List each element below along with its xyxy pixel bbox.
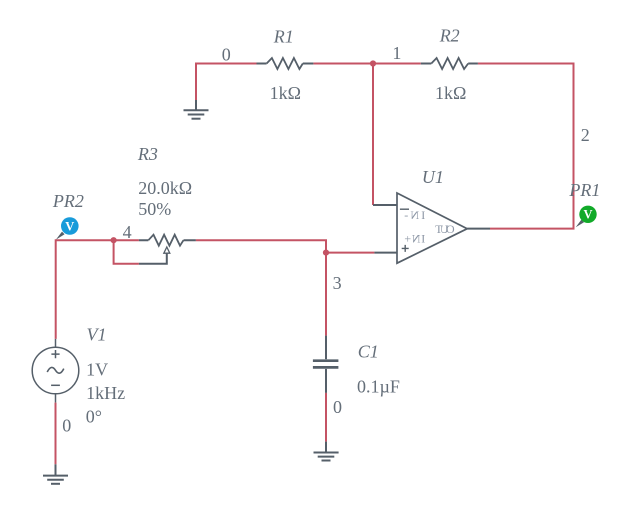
R3 value label 20.0kΩ [138, 178, 192, 198]
probe PR2 needle [56, 232, 65, 240]
U1 non-inverting input plus marker [402, 245, 409, 252]
svg-text:PR1: PR1 [568, 180, 600, 200]
node 0 label (below C1) [333, 397, 342, 417]
svg-text:0: 0 [222, 45, 231, 65]
svg-text:0: 0 [62, 415, 71, 435]
svg-text:R2: R2 [439, 26, 460, 46]
V1 phase label 0° [86, 406, 102, 426]
wire: PR2 corner to node 4, down to V1 [56, 240, 139, 339]
R2 reference label [439, 26, 460, 46]
V1 value label 1V [86, 360, 108, 380]
svg-text:1: 1 [392, 43, 401, 63]
svg-text:50%: 50% [138, 199, 171, 219]
node 1 label [392, 43, 401, 63]
node 4 label [123, 222, 132, 242]
U1 pin label OUT (mirrored) [434, 222, 454, 236]
wire: node 4 down and right to R3 wiper (red part) [114, 240, 139, 264]
wire: node 0 top-left corner to R1 left pin [196, 64, 257, 101]
svg-text:4: 4 [123, 222, 132, 242]
node 1 junction dot [370, 60, 376, 66]
V1 reference label [87, 325, 107, 345]
ground (below C1) [314, 442, 339, 461]
wire: R3 right pin to node 3 corner, to U1 non-inverting input and down to C1 [196, 240, 375, 335]
svg-text:R1: R1 [273, 26, 294, 46]
svg-text:C1: C1 [358, 341, 379, 361]
wire: R1 right pin to R2 left pin (node 1 rail) [313, 63, 420, 65]
svg-text:0°: 0° [86, 406, 102, 426]
R3 percentage label 50% [138, 199, 171, 219]
R3 wiper pin (gray part) [139, 253, 167, 264]
C1 value label 0.1µF [357, 377, 400, 397]
probe PR1 needle [576, 220, 584, 228]
svg-text:U1: U1 [422, 167, 444, 187]
source V1 circle with sine [32, 339, 79, 403]
R1 reference label [273, 26, 294, 46]
PR1 label [568, 180, 600, 200]
node 0 label (top-left) [222, 45, 231, 65]
wire: R2 right pin to right corner, down to op-amp output [478, 64, 574, 229]
svg-text:IN+: IN+ [404, 232, 425, 246]
wire: C1 bottom to ground [325, 393, 327, 442]
probe PR2 circle [61, 217, 79, 235]
svg-text:3: 3 [333, 273, 342, 293]
svg-text:1kΩ: 1kΩ [435, 83, 466, 103]
svg-text:IN-: IN- [404, 208, 425, 222]
C1 reference label [358, 341, 379, 361]
U1 output pin stub [467, 228, 490, 230]
svg-text:0.1µF: 0.1µF [357, 377, 400, 397]
svg-text:V: V [65, 219, 74, 233]
svg-text:V1: V1 [87, 325, 107, 345]
node 0 label (below V1) [62, 415, 71, 435]
svg-text:PR2: PR2 [52, 191, 84, 211]
svg-text:1V: 1V [86, 360, 108, 380]
wire: V1 bottom to ground [55, 403, 57, 465]
node 3 junction dot [323, 250, 329, 256]
svg-text:1kΩ: 1kΩ [270, 83, 301, 103]
node 2 label (right vertical wire) [581, 125, 590, 145]
resistor R2 [421, 58, 478, 69]
U1 inverting input pin stub [373, 204, 397, 206]
ground (top-left, node 0) [184, 100, 209, 119]
U1 pin label IN+ (mirrored) [404, 232, 425, 246]
U1 pin label IN- (mirrored) [404, 208, 425, 222]
svg-text:V: V [583, 208, 592, 222]
probe PR1 circle [579, 206, 596, 223]
potentiometer R3 [139, 235, 196, 254]
U1 inverting input minus marker [400, 208, 409, 210]
R2 value label 1kΩ [435, 83, 466, 103]
V1 frequency label 1kHz [86, 383, 125, 403]
svg-text:R3: R3 [137, 144, 158, 164]
ground (below V1) [43, 464, 68, 484]
svg-text:OUT: OUT [434, 222, 454, 236]
U1 non-inverting input pin stub [374, 252, 397, 254]
PR2 label [52, 191, 84, 211]
svg-text:2: 2 [581, 125, 590, 145]
capacitor C1 [313, 336, 339, 393]
op-amp U1 triangle [397, 193, 467, 263]
node 4 junction dot [111, 237, 117, 243]
node 3 label [333, 273, 342, 293]
svg-text:1kHz: 1kHz [86, 383, 125, 403]
resistor R1 [257, 58, 314, 69]
wire: node 1 down to U1 inverting input [372, 64, 374, 206]
U1 reference label [422, 167, 444, 187]
svg-text:0: 0 [333, 397, 342, 417]
R1 value label 1kΩ [270, 83, 301, 103]
R3 reference label [137, 144, 158, 164]
svg-text:20.0kΩ: 20.0kΩ [138, 178, 192, 198]
